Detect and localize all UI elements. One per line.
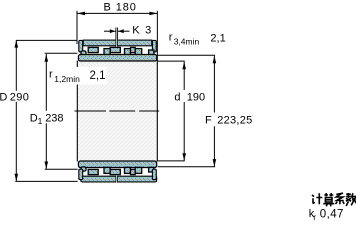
outer ring top split gap K xyxy=(116,39,118,46)
inner ring top xyxy=(78,55,156,62)
dimension D 290 xyxy=(0,40,78,182)
rollers bottom row xyxy=(81,167,154,175)
dimension D1 238 xyxy=(30,53,78,169)
glyph xi xyxy=(336,193,345,204)
svg-text:D: D xyxy=(0,92,7,104)
glyph ji xyxy=(312,193,322,204)
svg-text:r: r xyxy=(169,31,173,43)
label calculation factors (Chinese) xyxy=(312,193,356,206)
seal left top xyxy=(79,40,83,52)
svg-text:0,47: 0,47 xyxy=(320,208,344,220)
dimension d 190 xyxy=(158,61,206,161)
seal left bottom xyxy=(79,169,83,179)
glyph shu xyxy=(346,193,356,206)
shaft bore area xyxy=(77,61,157,162)
dimension F 223,25 xyxy=(158,55,253,167)
svg-text:2,1: 2,1 xyxy=(90,70,106,82)
svg-text:2,1: 2,1 xyxy=(210,33,225,45)
svg-text:r: r xyxy=(313,212,316,222)
svg-text:223,25: 223,25 xyxy=(217,114,252,126)
svg-text:290: 290 xyxy=(10,92,29,104)
outer ring top xyxy=(83,40,152,46)
svg-text:1: 1 xyxy=(38,116,43,126)
svg-text:190: 190 xyxy=(187,91,205,103)
rollers top row xyxy=(81,47,154,55)
svg-text:K 3: K 3 xyxy=(132,25,152,37)
dimension B 180 xyxy=(77,1,157,61)
label r3,4min 2,1 xyxy=(169,31,226,46)
svg-text:r: r xyxy=(49,69,53,81)
svg-text:d: d xyxy=(174,91,180,103)
svg-text:D: D xyxy=(30,112,38,124)
inner ring bottom xyxy=(78,161,156,168)
outer ring bottom split gap xyxy=(116,175,118,182)
seal right bottom xyxy=(152,169,156,179)
centerline xyxy=(75,110,160,112)
svg-text:F: F xyxy=(205,114,212,126)
label kr 0,47 xyxy=(309,208,344,222)
seal right top xyxy=(152,40,156,52)
glyph suan xyxy=(323,193,334,206)
label r1,2min 2,1 xyxy=(49,67,107,85)
svg-text:B 180: B 180 xyxy=(104,1,137,13)
svg-text:1,2min: 1,2min xyxy=(54,74,80,84)
svg-text:238: 238 xyxy=(45,112,63,124)
outer ring bottom xyxy=(81,176,157,182)
dimension K 3 xyxy=(104,25,152,40)
svg-text:3,4min: 3,4min xyxy=(174,37,200,47)
